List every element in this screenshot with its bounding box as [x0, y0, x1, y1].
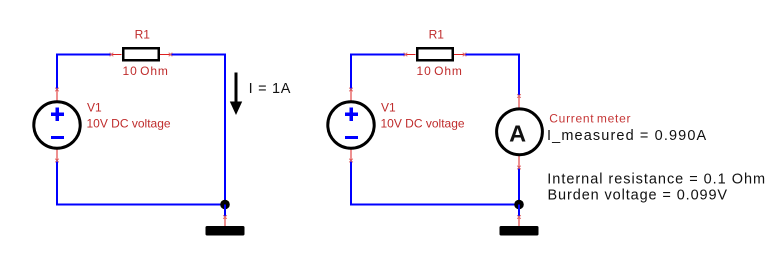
label Internal resistance = 0.1 Ohm [547, 171, 766, 187]
label I_measured = 0.990A [547, 128, 707, 144]
ground (left circuit) [206, 205, 245, 236]
label I = 1A [249, 81, 292, 97]
label Current meter [549, 111, 631, 125]
svg-text:I = 1A: I = 1A [249, 81, 292, 97]
label Burden voltage = 0.099V [548, 188, 729, 204]
current direction arrow (left circuit) [230, 73, 242, 116]
label V1 (right) [381, 101, 396, 115]
svg-text:R1: R1 [135, 28, 151, 42]
voltage source V1 (right circuit) [328, 88, 374, 163]
value label 10V DC voltage (right) [381, 117, 465, 131]
voltage source V1 (left circuit) [34, 88, 80, 163]
wire left circuit bottom-left segment [57, 160, 225, 205]
svg-text:Current meter: Current meter [549, 111, 631, 125]
svg-text:V1: V1 [87, 101, 102, 115]
resistor R1 (left circuit) [110, 48, 173, 60]
wire left circuit top-left segment [57, 55, 112, 91]
junction node (left circuit) [220, 200, 230, 210]
ammeter AM1 current meter (right circuit) [497, 94, 543, 169]
svg-text:Internal resistance = 0.1 Ohm: Internal resistance = 0.1 Ohm [547, 171, 766, 187]
svg-text:10V DC voltage: 10V DC voltage [87, 117, 171, 131]
value label 10V DC voltage (left) [87, 117, 171, 131]
svg-text:Burden voltage = 0.099V: Burden voltage = 0.099V [548, 188, 729, 204]
ground (right circuit) [500, 205, 539, 236]
svg-text:10 Ohm: 10 Ohm [123, 64, 169, 78]
label R1 (right) [429, 28, 445, 42]
wire right circuit top-right segment [464, 55, 519, 96]
wire right circuit bottom-left segment [351, 160, 519, 205]
label R1 (left) [135, 28, 151, 42]
junction node (right circuit) [514, 200, 524, 210]
resistor R1 (right circuit) [404, 48, 467, 60]
svg-text:10V DC voltage: 10V DC voltage [381, 117, 465, 131]
svg-text:I_measured = 0.990A: I_measured = 0.990A [547, 128, 707, 144]
wire right circuit ammeter-to-node segment [518, 168, 520, 205]
wire left circuit right segment [170, 55, 225, 205]
svg-text:R1: R1 [429, 28, 445, 42]
svg-text:10 Ohm: 10 Ohm [417, 64, 463, 78]
wire right circuit top-left segment [351, 55, 406, 91]
value label 10 Ohm (right) [417, 64, 463, 78]
svg-text:V1: V1 [381, 101, 396, 115]
svg-text:A: A [509, 120, 526, 146]
value label 10 Ohm (left) [123, 64, 169, 78]
label V1 (left) [87, 101, 102, 115]
